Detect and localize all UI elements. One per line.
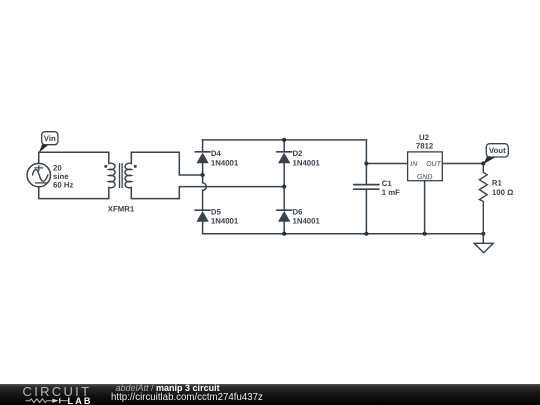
flag Vin xyxy=(39,132,58,153)
footer url line xyxy=(111,393,263,403)
svg-text:R1: R1 xyxy=(492,179,503,188)
wire secondary bottom output to bridge node B (with hop at left branch) xyxy=(131,187,284,199)
label source value 20 sine 60 Hz xyxy=(53,163,73,189)
junction dot bottom rail at regulator GND xyxy=(423,232,427,236)
footer bar xyxy=(0,384,540,405)
transformer core xyxy=(120,164,123,188)
wire capacitor bottom xyxy=(365,189,367,234)
wire left branch with hop over mid rail xyxy=(203,175,207,210)
wire secondary top output to bridge node A xyxy=(131,152,202,175)
node C junction dot xyxy=(364,161,368,165)
svg-text:100 Ω: 100 Ω xyxy=(492,188,513,197)
svg-text:D6: D6 xyxy=(293,207,304,216)
svg-text:1 mF: 1 mF xyxy=(382,188,400,197)
bridge right branch upper wire xyxy=(283,140,285,152)
junction dot bottom rail at capacitor branch xyxy=(364,232,368,236)
CircuitLab logo xyxy=(23,384,92,399)
svg-text:D2: D2 xyxy=(293,149,304,158)
svg-text:60 Hz: 60 Hz xyxy=(53,181,73,190)
svg-text:D4: D4 xyxy=(211,149,222,158)
node B junction dot xyxy=(282,185,286,189)
voltage regulator U2 7812 xyxy=(408,152,443,181)
wire source top to transformer primary xyxy=(39,152,109,163)
transformer XFMR1 secondary coil xyxy=(125,163,131,188)
node Vout junction dot xyxy=(481,161,485,165)
svg-text:1N4001: 1N4001 xyxy=(211,158,239,167)
svg-text:7812: 7812 xyxy=(416,141,434,150)
bridge left branch upper wire xyxy=(202,140,204,152)
wire bridge bottom rail xyxy=(203,233,484,235)
node A junction dot xyxy=(201,173,205,177)
wire right branch lower xyxy=(283,187,285,211)
wire regulator OUT to node Vout xyxy=(442,163,483,165)
svg-text:1N4001: 1N4001 xyxy=(293,158,321,167)
diode D6 xyxy=(277,210,292,234)
wire bridge top rail xyxy=(203,139,367,141)
svg-text:Vout: Vout xyxy=(489,146,506,155)
svg-text:Vin: Vin xyxy=(44,134,56,143)
svg-text:1N4001: 1N4001 xyxy=(211,217,239,226)
wire regulator GND to bottom rail xyxy=(424,181,426,234)
svg-text:XFMR1: XFMR1 xyxy=(108,204,135,213)
junction dot bottom rail at R1 xyxy=(481,232,485,236)
junction dot bottom rail at right branch xyxy=(282,232,286,236)
wire source bottom to transformer primary xyxy=(39,187,109,199)
svg-text:1N4001: 1N4001 xyxy=(293,217,321,226)
diode D4 xyxy=(195,152,210,175)
capacitor C1 xyxy=(354,185,379,190)
flag Vout xyxy=(483,144,508,164)
junction dot top rail over right branch xyxy=(282,138,286,142)
diode D5 xyxy=(195,210,210,234)
svg-text:D5: D5 xyxy=(211,207,222,216)
wire node C to regulator IN xyxy=(366,163,407,165)
transformer primary phase dot xyxy=(104,165,107,168)
svg-text:C1: C1 xyxy=(382,179,393,188)
transformer XFMR1 primary coil xyxy=(109,163,115,188)
svg-text:OUT: OUT xyxy=(426,161,442,168)
wire capacitor branch top xyxy=(365,140,367,185)
voltage source V1 (20 sine 60 Hz) xyxy=(27,163,50,186)
svg-text:sine: sine xyxy=(53,172,69,181)
ground xyxy=(474,234,493,253)
svg-text:20: 20 xyxy=(53,163,62,172)
resistor R1 xyxy=(479,164,487,234)
footer credit line xyxy=(116,384,220,393)
diode D2 xyxy=(277,152,292,187)
transformer secondary phase dot xyxy=(134,165,137,168)
svg-text:IN: IN xyxy=(410,161,418,168)
